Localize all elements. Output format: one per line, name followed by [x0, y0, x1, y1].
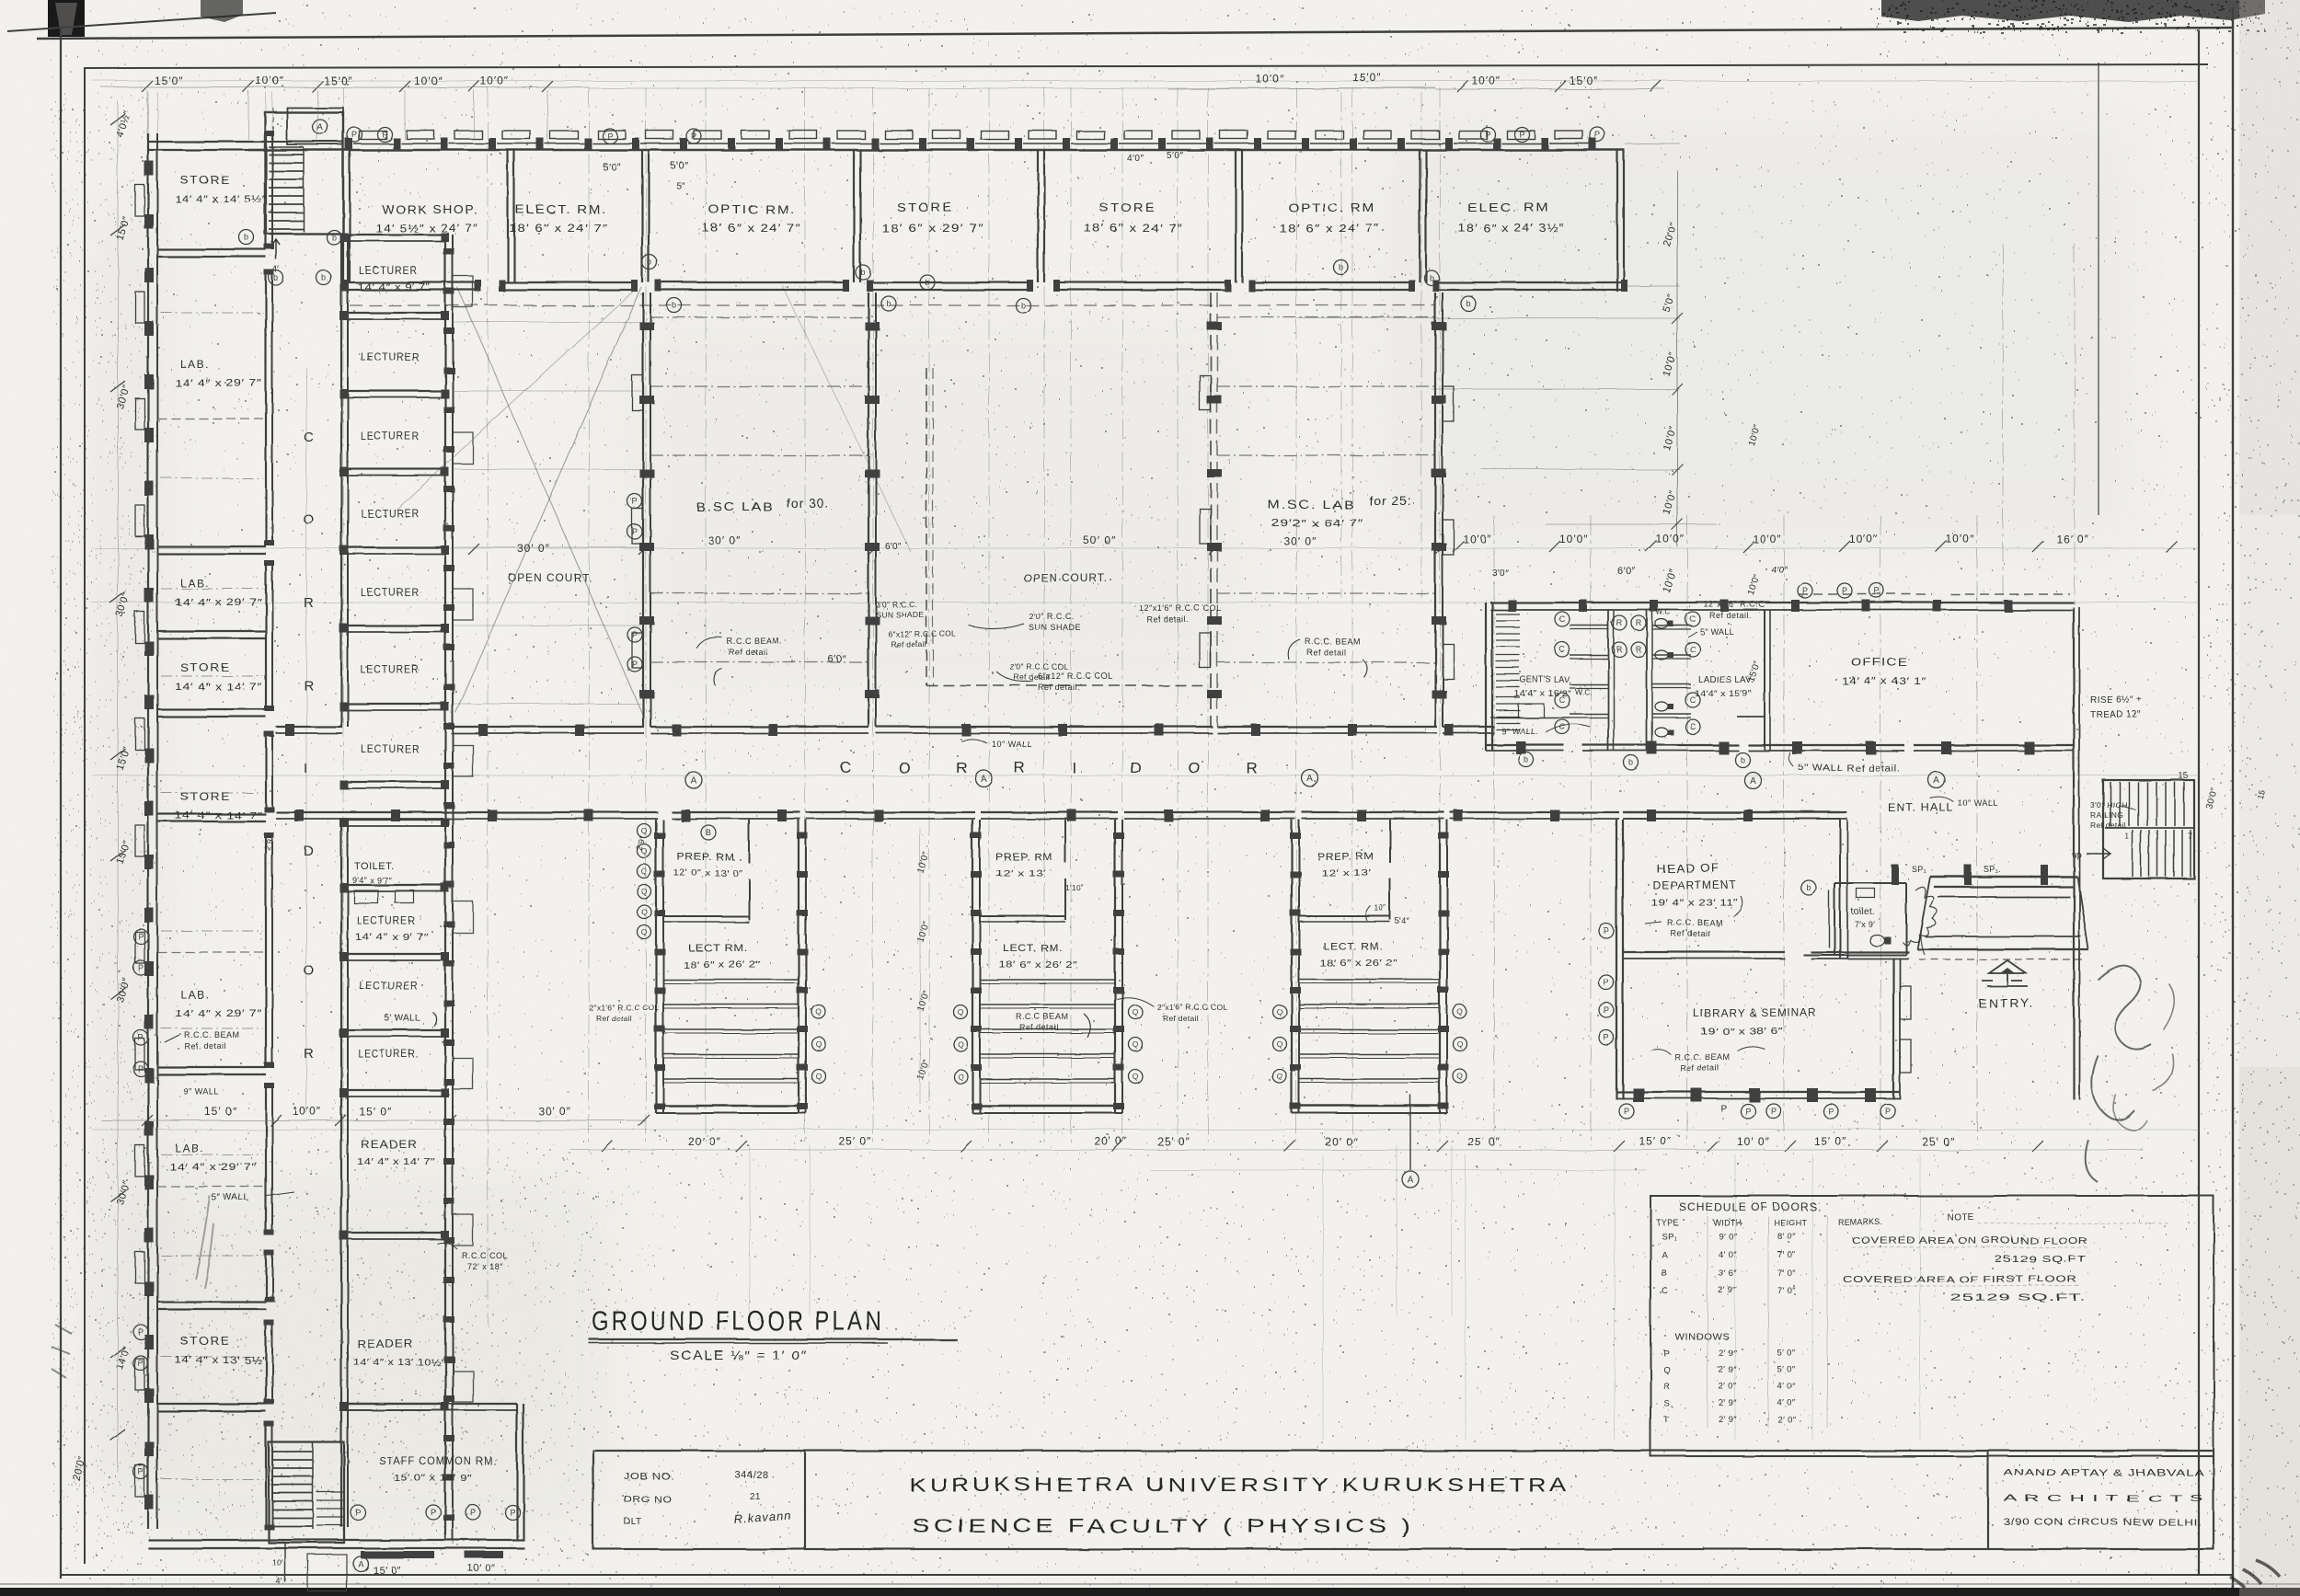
svg-text:LAB.: LAB. — [175, 1142, 204, 1154]
svg-text:P: P — [1604, 1033, 1609, 1042]
svg-text:P: P — [1604, 1005, 1609, 1015]
svg-text:R.C.C BEAM: R.C.C BEAM — [1016, 1012, 1069, 1021]
west rooms centerlines — [161, 312, 263, 314]
svg-text:DRG NO: DRG NO — [624, 1495, 672, 1505]
gray fog patches — [0, 0, 1, 1]
top-right edge smudge — [1881, 0, 2265, 22]
svg-text:9″ WALL: 9″ WALL — [184, 1087, 219, 1097]
svg-text:18′ 6″ x 26′ 2″: 18′ 6″ x 26′ 2″ — [683, 960, 761, 970]
svg-text:W.C.: W.C. — [1575, 688, 1593, 696]
hand-drawn roughen filter — [0, 0, 1, 1]
svg-text:Ref detail: Ref detail — [1163, 1014, 1199, 1023]
svg-text:14′ 5½″ x 24′ 7″: 14′ 5½″ x 24′ 7″ — [375, 222, 478, 235]
svg-text:A: A — [981, 775, 987, 785]
svg-text:R.C.C BEAM.: R.C.C BEAM. — [727, 637, 783, 646]
svg-text:ANAND APTAY & JHABVALA: ANAND APTAY & JHABVALA — [2004, 1468, 2204, 1478]
svg-text:GROUND FLOOR PLAN: GROUND FLOOR PLAN — [592, 1306, 884, 1337]
svg-text:10″: 10″ — [1374, 903, 1386, 913]
svg-text:STORE: STORE — [897, 201, 954, 214]
entry arrow — [1982, 973, 2028, 986]
svg-text:P: P — [138, 1359, 144, 1368]
svg-text:5″: 5″ — [676, 181, 685, 191]
svg-text:Q: Q — [958, 1039, 964, 1049]
P circles bsc west wall — [627, 494, 642, 509]
svg-text:READER: READER — [357, 1338, 414, 1350]
svg-text:10′0″: 10′0″ — [1753, 533, 1782, 545]
svg-text:4′: 4′ — [276, 1577, 282, 1586]
svg-text:10′0″: 10′0″ — [1559, 533, 1589, 545]
svg-text:12″x1′6″ R.C.C COL: 12″x1′6″ R.C.C COL — [1139, 603, 1222, 613]
porch steps — [1930, 876, 2077, 878]
svg-text:Q: Q — [641, 907, 648, 916]
court2 sun shade dashed wall — [926, 368, 927, 685]
svg-text:WORK SHOP.: WORK SHOP. — [382, 202, 478, 216]
lecturer stack east wall — [444, 235, 446, 1540]
svg-text:15′ 0″ x 13′ 9″: 15′ 0″ x 13′ 9″ — [394, 1474, 472, 1484]
svg-text:7′ 0″: 7′ 0″ — [1777, 1269, 1796, 1279]
svg-text:2′ 0″: 2′ 0″ — [1719, 1382, 1737, 1392]
svg-text:B.SC LAB: B.SC LAB — [696, 500, 775, 514]
svg-text:SUN SHADE: SUN SHADE — [876, 610, 924, 619]
head library divider wall — [1623, 951, 1785, 953]
corridor bottom wall — [276, 811, 658, 813]
staff room windows bottom — [361, 1551, 399, 1558]
svg-text:b: b — [331, 233, 336, 242]
top-left extra smudge — [201, 0, 243, 22]
P circles north wall — [347, 127, 362, 142]
svg-text:10′0″: 10′0″ — [1463, 533, 1492, 545]
svg-text:Ref detail: Ref detail — [1306, 648, 1346, 657]
svg-text:R: R — [1616, 618, 1623, 627]
ent hall right stair — [2103, 780, 2194, 878]
svg-text:P: P — [1745, 1107, 1751, 1116]
right margin scanner noise strip — [2239, 0, 2300, 515]
svg-text:10″ WALL: 10″ WALL — [1958, 798, 1998, 808]
bottom stair dashed projection — [308, 1555, 347, 1591]
svg-text:25′ 0″: 25′ 0″ — [1467, 1135, 1501, 1148]
svg-text:3′0″: 3′0″ — [1492, 568, 1509, 579]
svg-text:LECT. RM.: LECT. RM. — [1323, 941, 1383, 952]
svg-text:Q: Q — [816, 1007, 822, 1016]
svg-text:P: P — [138, 932, 144, 941]
lecture block B walls — [972, 820, 973, 1113]
svg-text:P: P — [1604, 926, 1609, 936]
gents stalls column — [1607, 610, 1609, 751]
svg-text:P: P — [1624, 1107, 1629, 1116]
svg-text:P: P — [382, 130, 387, 139]
svg-text:LAB.: LAB. — [180, 358, 210, 371]
library east wall — [1892, 958, 1894, 1099]
svg-text:Ref detail: Ref detail — [1680, 1063, 1719, 1073]
bottom-left stair lower steps — [316, 1491, 344, 1493]
svg-text:14′ 4″ x 14′ 5½″: 14′ 4″ x 14′ 5½″ — [175, 194, 267, 205]
svg-text:WINDOWS: WINDOWS — [1674, 1332, 1730, 1342]
partition store1/lab1 — [157, 248, 266, 250]
svg-text:12′ x 13′: 12′ x 13′ — [1321, 868, 1372, 878]
bottom sheet edge dark band — [0, 1588, 2300, 1596]
svg-text:P: P — [138, 1033, 144, 1042]
svg-text:Ref detail: Ref detail — [1014, 672, 1050, 682]
west wing top wall — [148, 141, 266, 143]
svg-text:A: A — [358, 1559, 363, 1568]
svg-text:9′ 0″: 9′ 0″ — [1719, 1232, 1737, 1242]
svg-text:P: P — [351, 130, 357, 139]
svg-text:10′0″: 10′0″ — [414, 75, 443, 87]
svg-text:10′0″: 10′0″ — [1256, 73, 1285, 86]
svg-text:18′ 6″ x 24′ 7″: 18′ 6″ x 24′ 7″ — [1084, 222, 1183, 235]
svg-text:2′ 9″: 2′ 9″ — [1719, 1415, 1737, 1425]
svg-text:2′ 9″: 2′ 9″ — [1719, 1286, 1737, 1296]
svg-text:TYPE: TYPE — [1656, 1218, 1679, 1227]
svg-text:Q: Q — [1457, 1072, 1464, 1081]
svg-text:W.C: W.C — [1656, 608, 1671, 616]
svg-text:10′ 0″: 10′ 0″ — [467, 1563, 495, 1574]
svg-text:5′4″: 5′4″ — [1395, 916, 1410, 925]
svg-text:10′0″: 10′0″ — [1849, 533, 1879, 545]
partition lab/store 1419 — [157, 1301, 266, 1303]
office west wall — [1764, 610, 1765, 751]
court1 diagonal construction lines — [455, 287, 641, 713]
ladies stalls column — [1646, 610, 1648, 751]
svg-text:STORE: STORE — [180, 790, 231, 803]
gents lav entry screen hatch — [1496, 614, 1520, 615]
svg-text:21: 21 — [750, 1492, 761, 1502]
svg-text:14′ 4″ x 9′ 7″: 14′ 4″ x 9′ 7″ — [355, 933, 429, 943]
svg-text:18′ 6″ x 26′ 2″: 18′ 6″ x 26′ 2″ — [1319, 959, 1397, 969]
svg-text:HEAD OF: HEAD OF — [1656, 862, 1720, 875]
svg-text:P: P — [138, 963, 144, 972]
svg-text:O: O — [304, 963, 315, 979]
B circle toilet — [1801, 880, 1816, 895]
svg-text:P: P — [1594, 130, 1600, 139]
svg-text:OPTIC. RM: OPTIC. RM — [1288, 201, 1375, 214]
svg-text:I: I — [1072, 759, 1076, 776]
svg-text:2′ 9″: 2′ 9″ — [1719, 1365, 1737, 1375]
svg-text:15′0″: 15′0″ — [155, 75, 184, 87]
svg-text:WIDTH: WIDTH — [1713, 1218, 1742, 1227]
court1 horizontal grid lines — [453, 321, 641, 323]
svg-text:COVERED AREA OF FIRST: COVERED AREA OF FIRST FLOOR — [1843, 1275, 2077, 1285]
svg-text:A: A — [691, 776, 697, 787]
A circle bottom stair — [353, 1556, 368, 1571]
section marker A line — [1409, 1095, 1411, 1170]
svg-text:b: b — [244, 233, 248, 242]
svg-text:P: P — [1519, 130, 1524, 139]
svg-text:PREP. RM: PREP. RM — [1317, 852, 1374, 863]
svg-text:7′ 0″: 7′ 0″ — [1777, 1250, 1796, 1260]
svg-text:b: b — [1466, 299, 1470, 308]
svg-text:b: b — [1429, 273, 1433, 282]
svg-text:C: C — [1690, 722, 1696, 731]
right border line outer — [2232, 7, 2234, 1592]
svg-text:KURUKSHETRA UNIVERSITY: KURUKSHETRA UNIVERSITY KURUKSHETRA — [909, 1475, 1570, 1496]
stair entry lobby — [287, 108, 343, 144]
svg-text:Q: Q — [1133, 1072, 1139, 1081]
block A Q circles — [638, 824, 651, 838]
inner vertical line 2280 — [2098, 63, 2099, 515]
svg-text:18′ 6″ x 24′ 7″: 18′ 6″ x 24′ 7″ — [1279, 222, 1380, 235]
svg-text:30′ 0″: 30′ 0″ — [708, 534, 742, 547]
svg-text:10″ WALL: 10″ WALL — [992, 740, 1032, 749]
svg-text:Q: Q — [1277, 1039, 1283, 1049]
partition store bottom 1530 — [157, 1403, 266, 1405]
svg-text:Ref detail.: Ref detail. — [1709, 611, 1752, 620]
svg-text:7′x 9′: 7′x 9′ — [1855, 920, 1875, 929]
faint grid below dim row — [1322, 1154, 1324, 1440]
svg-text:O: O — [898, 759, 910, 776]
svg-text:14′ 4″ x 29′ 7″: 14′ 4″ x 29′ 7″ — [175, 597, 262, 608]
stair label A circle — [313, 120, 328, 134]
svg-text:SCIENCE FACULTY ( PHYSI: SCIENCE FACULTY ( PHYSICS ) — [913, 1516, 1414, 1537]
svg-text:b: b — [1740, 755, 1744, 764]
svg-text:P: P — [138, 1064, 144, 1074]
svg-text:3′0″ R.C.C.: 3′0″ R.C.C. — [876, 600, 917, 609]
building east wall — [2073, 607, 2075, 1099]
svg-text:ELECT. RM.: ELECT. RM. — [515, 202, 607, 216]
wc fixtures ladies — [1655, 619, 1668, 628]
svg-text:LECTURER: LECTURER — [361, 742, 420, 755]
svg-text:9″ WALL.: 9″ WALL. — [1501, 727, 1538, 736]
svg-text:10′0″: 10′0″ — [256, 75, 285, 87]
svg-text:Q: Q — [1457, 1007, 1464, 1016]
svg-text:6′0″: 6′0″ — [885, 542, 902, 552]
svg-text:LECTURER: LECTURER — [361, 430, 420, 442]
svg-text:25129 SQ.FT.: 25129 SQ.FT. — [1950, 1293, 2087, 1303]
svg-text:P: P — [138, 1327, 144, 1337]
svg-text:T: T — [1663, 1415, 1669, 1425]
svg-text:5′0″: 5′0″ — [1167, 151, 1184, 161]
svg-text:14′ 4″ x 14′ 7″: 14′ 4″ x 14′ 7″ — [175, 682, 262, 693]
svg-text:b: b — [647, 258, 651, 267]
svg-text:10′: 10′ — [272, 1558, 283, 1567]
svg-text:14′ 4″ x 14′ 7″: 14′ 4″ x 14′ 7″ — [357, 1157, 435, 1167]
partition optic/store — [853, 150, 855, 282]
svg-text:b: b — [1524, 755, 1528, 764]
svg-text:LAB.: LAB. — [180, 577, 210, 590]
svg-text:SP₁: SP₁ — [1912, 865, 1926, 874]
svg-text:A R C H I T E C T S: A R C H I T E C T S — [2004, 1494, 2204, 1504]
north wing south wall — [343, 281, 478, 283]
lecture block C walls — [1291, 820, 1293, 1113]
partition dash 1290 — [157, 1186, 266, 1188]
svg-text:RAILING: RAILING — [2090, 810, 2123, 820]
title block outer box — [593, 1451, 2214, 1549]
svg-text:LECTURER: LECTURER — [361, 350, 420, 363]
svg-text:P: P — [607, 132, 613, 141]
svg-text:R: R — [1246, 759, 1257, 776]
svg-text:Q: Q — [816, 1072, 822, 1081]
left border line inner — [84, 68, 86, 1564]
msc lab east wall — [1434, 293, 1436, 727]
big signature scribble bottom right — [2086, 966, 2151, 1182]
partition lab1/lab2 — [157, 545, 266, 547]
svg-text:10′ 0″: 10′ 0″ — [1737, 1135, 1770, 1148]
svg-text:R: R — [1616, 645, 1623, 654]
svg-text:14′ 4″ x 13′ 5½″: 14′ 4″ x 13′ 5½″ — [175, 1355, 267, 1366]
svg-text:12″x1′6″ R.C.C: 12″x1′6″ R.C.C — [1704, 600, 1765, 609]
svg-text:18′ 6″ x 24′ 3½″: 18′ 6″ x 24′ 3½″ — [1458, 222, 1565, 235]
svg-text:NOTE: NOTE — [1947, 1212, 1974, 1223]
svg-text:JOB NO.: JOB NO. — [624, 1472, 674, 1482]
svg-text:PREP. RM: PREP. RM — [995, 852, 1052, 863]
stair up arrow — [272, 239, 280, 259]
svg-text:Ref detail: Ref detail — [1019, 1023, 1059, 1032]
svg-text:A: A — [1307, 775, 1314, 785]
svg-text:P: P — [510, 1508, 515, 1517]
toilet wc fixture — [1869, 935, 1884, 946]
svg-text:5′ 0″: 5′ 0″ — [1777, 1365, 1796, 1375]
svg-text:15′0″: 15′0″ — [1570, 75, 1599, 87]
svg-text:b: b — [925, 278, 929, 287]
svg-text:ENT. HALL: ENT. HALL — [1888, 801, 1954, 814]
svg-text:Q: Q — [958, 1007, 964, 1016]
svg-text:R: R — [1636, 618, 1642, 627]
svg-text:30′ 0″: 30′ 0″ — [1283, 534, 1317, 547]
svg-text:b: b — [1806, 883, 1811, 892]
svg-text:LECTURER.: LECTURER. — [359, 1048, 420, 1061]
svg-text:B: B — [706, 828, 711, 837]
svg-text:12′ 0″ x 13′ 0″: 12′ 0″ x 13′ 0″ — [673, 868, 742, 878]
svg-text:12′ x 13′: 12′ x 13′ — [995, 868, 1046, 878]
svg-text:LECT. RM.: LECT. RM. — [1003, 943, 1063, 954]
svg-text:A: A — [1934, 776, 1940, 787]
svg-text:2′ 9″: 2′ 9″ — [1719, 1349, 1737, 1359]
svg-text:SP₁.: SP₁. — [1984, 865, 2001, 874]
svg-text:for 25:: for 25: — [1369, 493, 1412, 508]
svg-text:R: R — [304, 1046, 314, 1062]
svg-text:b: b — [1020, 301, 1025, 310]
svg-text:STORE: STORE — [1099, 201, 1156, 214]
svg-text:Q: Q — [641, 927, 648, 936]
svg-text:TOILET.: TOILET. — [354, 861, 395, 872]
corridor top wall west part — [276, 726, 342, 728]
svg-text:Q: Q — [1457, 1039, 1464, 1049]
svg-text:RISE 6½″ +: RISE 6½″ + — [2090, 695, 2143, 706]
svg-text:2′0″ R.C.C.: 2′0″ R.C.C. — [1029, 612, 1075, 621]
svg-text:Ref detail.: Ref detail. — [1146, 614, 1189, 624]
svg-text:Q: Q — [1133, 1007, 1139, 1016]
title block divider right — [1987, 1451, 1989, 1549]
P circles lav top wall — [1798, 583, 1812, 598]
svg-text:7′ 0″: 7′ 0″ — [1777, 1286, 1796, 1296]
svg-text:R: R — [1663, 1382, 1670, 1392]
svg-text:4′ 0″: 4′ 0″ — [1719, 1250, 1737, 1260]
svg-text:14′ 4″ x 14′ 7″: 14′ 4″ x 14′ 7″ — [175, 810, 262, 821]
svg-text:4′0″: 4′0″ — [1771, 565, 1788, 575]
svg-text:LECTURER: LECTURER — [361, 586, 420, 599]
svg-text:P: P — [1885, 1107, 1891, 1116]
svg-text:R: R — [1636, 645, 1642, 654]
bsc lab west wall — [642, 293, 644, 727]
partition mid dash 1035 — [157, 951, 266, 953]
lav block west wall — [1485, 603, 1487, 751]
svg-text:4′ 0″: 4′ 0″ — [1777, 1398, 1796, 1408]
svg-text:P: P — [1874, 586, 1880, 595]
svg-text:C: C — [1559, 645, 1566, 654]
staff common room walls — [516, 1404, 518, 1540]
svg-text:15′ 0″: 15′ 0″ — [359, 1105, 392, 1118]
svg-text:3′ 6″: 3′ 6″ — [1719, 1269, 1737, 1279]
svg-text:Q: Q — [1277, 1072, 1283, 1081]
gents counter — [1490, 717, 1570, 718]
svg-text:D: D — [304, 844, 314, 859]
svg-text:LIBRARY & SEMINAR: LIBRARY & SEMINAR — [1693, 1006, 1817, 1019]
svg-text:P: P — [138, 1467, 144, 1476]
block C Q circles — [1273, 1005, 1287, 1019]
svg-text:B: B — [1662, 1269, 1668, 1279]
svg-text:C: C — [840, 759, 851, 776]
svg-text:Ref detail.: Ref detail. — [1038, 683, 1080, 692]
svg-text:b: b — [273, 273, 278, 282]
schedule faint column lines — [1707, 1216, 1708, 1428]
stair up arrow right — [2087, 848, 2110, 859]
svg-text:25′ 0″: 25′ 0″ — [1922, 1135, 1955, 1148]
top border line outer — [37, 28, 2233, 39]
svg-text:R: R — [304, 595, 314, 611]
fine grain filter — [0, 0, 1, 1]
svg-text:b: b — [672, 301, 676, 310]
svg-text:A: A — [317, 123, 324, 133]
lav block bottom wall — [1486, 744, 1564, 746]
svg-text:for 30.: for 30. — [787, 496, 830, 511]
svg-text:10′0″: 10′0″ — [293, 1105, 322, 1118]
svg-text:b: b — [886, 299, 891, 308]
C circles gents lav — [1555, 612, 1570, 626]
right border line inner — [2198, 30, 2200, 1575]
partition optic/elec — [1419, 150, 1420, 282]
svg-text:P: P — [632, 527, 638, 536]
svg-text:P: P — [431, 1508, 436, 1517]
svg-text:P: P — [1485, 130, 1490, 139]
top border line inner — [84, 64, 2208, 68]
svg-text:up: up — [2072, 850, 2082, 859]
partition lab2/store3 — [157, 630, 266, 632]
svg-text:STORE: STORE — [180, 174, 231, 187]
svg-text:14′ 4″ x 29′ 7″: 14′ 4″ x 29′ 7″ — [169, 1162, 257, 1173]
svg-text:OPEN COURT.: OPEN COURT. — [1023, 571, 1108, 584]
svg-text:15′ 0″: 15′ 0″ — [204, 1105, 237, 1118]
svg-text:b: b — [860, 268, 865, 277]
svg-text:P: P — [632, 497, 638, 506]
block A B circle — [701, 825, 716, 840]
svg-text:18′ 6″ x 26′ 2″: 18′ 6″ x 26′ 2″ — [999, 960, 1077, 970]
svg-text:DLT: DLT — [624, 1517, 642, 1527]
west wing bottom wall — [148, 1539, 524, 1541]
svg-text:b: b — [321, 273, 326, 282]
B circles north wing doors — [239, 230, 254, 245]
schedule of doors box — [1650, 1196, 2214, 1456]
svg-text:A: A — [1750, 776, 1756, 787]
svg-text:C: C — [1559, 614, 1566, 624]
west exterior wall with windows — [147, 133, 149, 1529]
svg-text:C: C — [1662, 1286, 1668, 1296]
svg-text:STORE: STORE — [180, 661, 231, 674]
svg-text:toilet.: toilet. — [1851, 907, 1875, 917]
lecturer partitions — [341, 234, 445, 235]
svg-text:5″ WALL Ref detail.: 5″ WALL Ref detail. — [1799, 764, 1900, 774]
svg-text:Ref. detail: Ref. detail — [184, 1041, 226, 1051]
svg-text:5′ 0″: 5′ 0″ — [1777, 1349, 1796, 1359]
sp1 door jambs — [1892, 865, 1899, 885]
bsc lab benches — [650, 316, 868, 318]
faint horizontal construction lines — [92, 80, 2199, 82]
lecturer stack window boxes east — [453, 276, 473, 307]
svg-text:TREAD 12″: TREAD 12″ — [2090, 710, 2142, 720]
svg-text:ENTRY.: ENTRY. — [1978, 996, 2035, 1010]
svg-text:R: R — [304, 678, 314, 694]
lav office top wall — [1490, 602, 2074, 603]
A circles along corridor — [685, 772, 702, 788]
